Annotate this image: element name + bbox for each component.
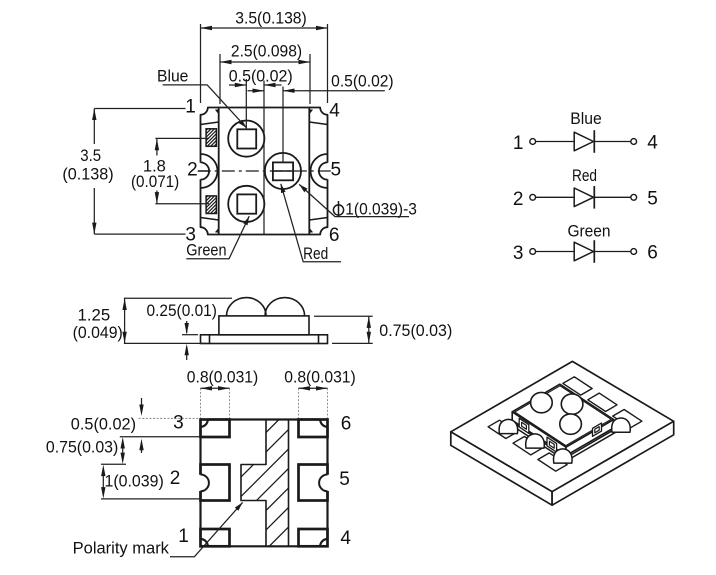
- svg-text:1.25: 1.25: [78, 306, 111, 325]
- svg-text:1(0.039)-3: 1(0.039)-3: [345, 200, 417, 219]
- svg-text:1(0.039): 1(0.039): [105, 472, 164, 491]
- svg-text:(0.071): (0.071): [131, 172, 179, 191]
- svg-text:2: 2: [513, 189, 524, 210]
- svg-text:6: 6: [341, 414, 352, 435]
- svg-text:1: 1: [178, 526, 189, 547]
- svg-text:0.5(0.02): 0.5(0.02): [71, 415, 136, 434]
- svg-text:(0.049): (0.049): [73, 323, 123, 342]
- svg-text:6: 6: [329, 225, 340, 246]
- svg-text:1: 1: [513, 133, 524, 154]
- svg-text:2: 2: [170, 468, 181, 489]
- svg-text:(0.138): (0.138): [62, 165, 113, 184]
- svg-text:Green: Green: [567, 222, 610, 241]
- svg-text:Blue: Blue: [157, 67, 188, 86]
- svg-text:Green: Green: [186, 241, 226, 260]
- svg-text:0.75(0.03): 0.75(0.03): [46, 437, 118, 456]
- svg-text:0.25(0.01): 0.25(0.01): [147, 301, 217, 320]
- svg-text:3.5: 3.5: [80, 146, 101, 165]
- svg-text:0.5(0.02): 0.5(0.02): [229, 67, 293, 86]
- svg-text:0.8(0.031): 0.8(0.031): [187, 368, 259, 387]
- svg-text:Red: Red: [572, 166, 597, 185]
- svg-text:3: 3: [513, 243, 524, 264]
- svg-text:2.5(0.098): 2.5(0.098): [231, 42, 302, 61]
- svg-text:4: 4: [647, 133, 658, 154]
- svg-text:1: 1: [185, 96, 196, 117]
- svg-text:4: 4: [340, 528, 351, 549]
- svg-text:3: 3: [173, 412, 184, 433]
- svg-text:4: 4: [329, 101, 340, 122]
- svg-text:Blue: Blue: [570, 109, 602, 128]
- svg-text:5: 5: [647, 189, 658, 210]
- svg-text:0.5(0.02): 0.5(0.02): [331, 71, 394, 90]
- svg-text:3.5(0.138): 3.5(0.138): [235, 9, 307, 28]
- svg-text:6: 6: [647, 243, 658, 264]
- svg-text:2: 2: [187, 159, 198, 180]
- svg-text:Red: Red: [303, 244, 328, 263]
- svg-text:0.8(0.031): 0.8(0.031): [284, 368, 356, 387]
- svg-text:0.75(0.03): 0.75(0.03): [379, 321, 452, 340]
- svg-text:5: 5: [339, 469, 350, 490]
- svg-text:5: 5: [331, 159, 342, 180]
- svg-text:Polarity mark: Polarity mark: [73, 539, 170, 558]
